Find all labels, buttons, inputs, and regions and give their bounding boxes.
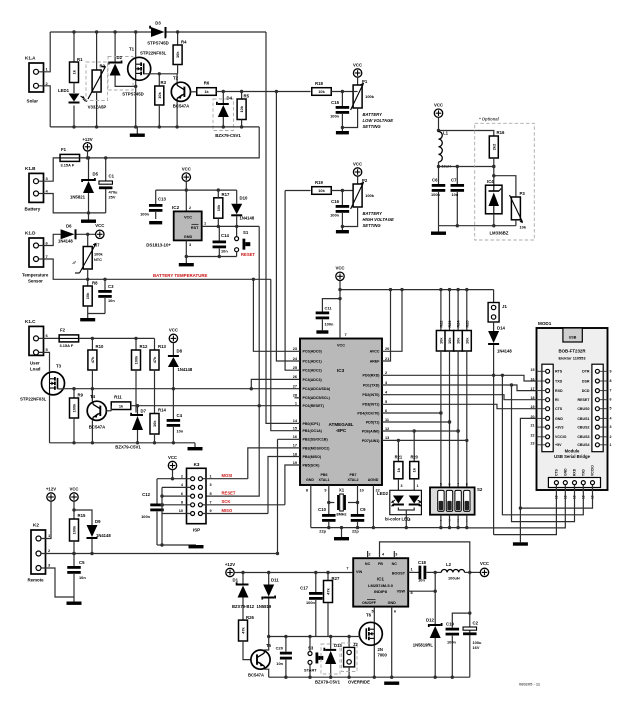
svg-text:PD7(AIN1): PD7(AIN1) [362, 439, 380, 443]
svg-text:8: 8 [181, 501, 183, 505]
wire IC2 RST line [202, 218, 260, 228]
svg-text:2: 2 [610, 435, 612, 439]
svg-text:PC0(ADC0): PC0(ADC0) [303, 350, 323, 354]
svg-text:6: 6 [394, 610, 396, 614]
svg-text:27: 27 [293, 385, 297, 389]
svg-text:Temperature: Temperature [22, 273, 49, 278]
diode D3 STPS745D in top rail [147, 21, 169, 46]
capacitor C1 470u 25V [99, 158, 118, 213]
svg-text:17: 17 [293, 444, 297, 448]
svg-text:BZX79-C5V1: BZX79-C5V1 [215, 133, 241, 138]
transistor T5 BC547A [248, 637, 272, 678]
ground below solar rail [130, 127, 145, 137]
transistor T6 2N7000 MOSFET [359, 607, 387, 678]
svg-text:PB5(SCK): PB5(SCK) [303, 463, 321, 467]
svg-text:C15: C15 [331, 100, 339, 105]
resistor R16 [489, 130, 505, 185]
connector K2 Remote [28, 523, 52, 583]
svg-text:STP22NF03L: STP22NF03L [140, 51, 167, 56]
wire IC3 vcc [338, 281, 341, 339]
pushbutton S3 START [304, 637, 323, 678]
svg-text:1N5819RL: 1N5819RL [413, 643, 434, 648]
connector K1.B Battery [25, 166, 49, 212]
svg-text:DCD: DCD [582, 389, 590, 393]
module MOD1 box [537, 321, 608, 490]
svg-text:1: 1 [210, 475, 212, 479]
svg-text:C16: C16 [331, 199, 339, 204]
svg-text:BC547A: BC547A [89, 425, 105, 430]
svg-text:DSR: DSR [582, 379, 590, 383]
svg-text:BOB-FT232R: BOB-FT232R [558, 349, 586, 354]
svg-text:Solar: Solar [27, 99, 39, 104]
wire RESET vertical [205, 226, 259, 496]
diode D10 1N4148 [231, 190, 255, 226]
svg-text:PB1(OC1A): PB1(OC1A) [303, 429, 323, 433]
svg-text:VCC: VCC [353, 162, 362, 167]
svg-text:GND: GND [388, 601, 397, 605]
svg-text:25V: 25V [109, 195, 116, 200]
svg-text:19: 19 [293, 461, 297, 465]
resistor R15 [70, 513, 86, 541]
svg-text:CTS: CTS [555, 407, 563, 411]
svg-text:D2: D2 [117, 55, 123, 60]
svg-text:INDIP8: INDIP8 [374, 589, 388, 594]
svg-text:C20: C20 [276, 646, 284, 651]
svg-text:R23: R23 [448, 321, 452, 328]
svg-text:D12: D12 [426, 618, 434, 623]
svg-text:10n: 10n [108, 298, 115, 303]
svg-text:100k: 100k [134, 355, 139, 364]
+12V supply regulator [225, 562, 235, 577]
svg-text:3: 3 [385, 381, 387, 385]
svg-text:User: User [30, 361, 40, 366]
wire AVCC pin20 [382, 288, 404, 351]
wire pin15 [271, 279, 300, 430]
capacitor C12 100n [141, 479, 164, 545]
wire pin23 temperature [253, 279, 300, 351]
svg-text:100uH: 100uH [448, 576, 460, 581]
zener D13 BZX79-C5V1 [315, 637, 342, 685]
VCC supply D8 [169, 328, 178, 343]
svg-text:16: 16 [293, 435, 297, 439]
transistor T3 STP22NF03L MOSFET [20, 352, 65, 442]
svg-text:1: 1 [204, 222, 206, 226]
svg-text:LED2: LED2 [377, 491, 389, 496]
wire solar bottom rail [50, 125, 259, 128]
varistor R2 V33ZA5P [86, 32, 108, 127]
wire IC3 pin10 XTAL2 [356, 485, 364, 514]
wire pin11 line [382, 420, 451, 423]
svg-text:BZX79-C5V1: BZX79-C5V1 [115, 445, 141, 450]
svg-text:1: 1 [610, 443, 612, 447]
wire L1 node [437, 165, 496, 168]
svg-text:PB6: PB6 [321, 473, 328, 477]
wire VCC to R15 D9 [72, 501, 92, 525]
svg-text:RESET: RESET [241, 252, 255, 257]
svg-text:C13: C13 [158, 197, 166, 202]
svg-text:R25: R25 [465, 321, 469, 328]
svg-text:7: 7 [346, 567, 348, 571]
svg-text:8MHz: 8MHz [336, 512, 346, 517]
svg-text:R9: R9 [78, 393, 84, 398]
wire optional bottom rail [439, 224, 516, 227]
svg-text:3.15A F: 3.15A F [61, 163, 75, 168]
wire pin6 line [382, 411, 443, 414]
svg-text:10n: 10n [276, 661, 283, 666]
wire IC2 gnd net [185, 241, 237, 264]
svg-text:D11: D11 [271, 578, 279, 583]
resistor R13 [150, 338, 166, 413]
wire pin28 stub [295, 397, 301, 399]
MOD1 bottom connector [548, 465, 600, 499]
svg-text:23: 23 [293, 347, 297, 351]
svg-text:10: 10 [179, 509, 183, 513]
transistor T2 BC547A [171, 74, 196, 127]
svg-text:080205 - 11: 080205 - 11 [519, 682, 541, 687]
svg-text:100k: 100k [94, 252, 103, 257]
svg-text:Battery: Battery [25, 207, 41, 212]
wire ISP ground pins [160, 487, 190, 513]
svg-text:10k: 10k [175, 51, 180, 58]
resistor R20 [410, 431, 419, 490]
svg-text:1: 1 [411, 568, 413, 572]
svg-text:R11: R11 [114, 395, 122, 400]
svg-text:26: 26 [293, 375, 297, 379]
svg-text:Remote: Remote [28, 578, 45, 583]
VCC supply IC3 [335, 266, 344, 281]
svg-text:8: 8 [306, 489, 308, 493]
svg-text:VCC: VCC [184, 216, 192, 220]
ground K2 [67, 597, 82, 605]
svg-text:VCC: VCC [169, 328, 178, 333]
svg-text:10n: 10n [418, 578, 425, 583]
svg-text:21: 21 [385, 357, 389, 361]
ground battery [81, 213, 96, 223]
resistor R11 1k [111, 395, 131, 411]
ground P2 [336, 230, 349, 233]
wire VCC rail 289 [340, 288, 494, 291]
svg-text:2: 2 [368, 553, 370, 557]
svg-text:D1: D1 [233, 578, 239, 583]
schottky D12 1N5819RL [413, 591, 443, 677]
svg-text:3: 3 [189, 243, 191, 247]
svg-text:MOD1: MOD1 [538, 321, 552, 326]
svg-text:1: 1 [295, 402, 297, 406]
svg-text:PD1(TXD): PD1(TXD) [363, 383, 380, 387]
svg-text:100n: 100n [325, 322, 334, 327]
capacitor C19 100n [446, 613, 470, 677]
svg-text:100n: 100n [306, 600, 315, 605]
battery temperature net [86, 273, 271, 281]
svg-text:2N: 2N [378, 647, 383, 652]
svg-text:10n: 10n [221, 249, 228, 254]
svg-text:STPS745D: STPS745D [147, 41, 169, 46]
svg-text:BZX79-B12: BZX79-B12 [232, 604, 255, 609]
wire MOD1 bottom VCCIO [520, 485, 592, 509]
svg-text:3: 3 [610, 425, 612, 429]
svg-text:D10: D10 [240, 196, 248, 201]
capacitor C7 10n [451, 167, 465, 226]
svg-text:C12: C12 [142, 492, 150, 497]
ground ISP [189, 545, 204, 548]
diode D8 1N4148 [168, 343, 193, 391]
potentiometer P1 100k [342, 77, 374, 127]
svg-text:10k: 10k [216, 204, 221, 211]
label RESET isp [222, 491, 236, 496]
svg-text:D4: D4 [227, 96, 233, 101]
svg-text:PD5(T1): PD5(T1) [366, 420, 380, 424]
regulator IC1 LM2574M box [346, 553, 412, 614]
svg-text:10k: 10k [520, 225, 527, 230]
svg-text:10k: 10k [318, 89, 325, 94]
svg-text:8: 8 [610, 379, 612, 383]
wire pin19 SCK [285, 465, 300, 505]
svg-text:RXD: RXD [555, 389, 563, 393]
svg-text:XTAL2: XTAL2 [347, 478, 358, 482]
wire K2 pin3 to gnd [41, 568, 74, 597]
svg-text:10k: 10k [85, 292, 90, 299]
svg-text:VCC: VCC [69, 487, 78, 492]
svg-text:R16: R16 [497, 130, 505, 135]
wire IC3 pin22 AGND [373, 485, 379, 528]
crystal X1 8MHz [329, 488, 358, 517]
svg-text:21: 21 [531, 424, 535, 428]
wire solar top rail [50, 30, 151, 33]
resistor R19 10k [285, 180, 353, 194]
svg-text:PD6(AIN0): PD6(AIN0) [362, 429, 380, 433]
wire P3 top [494, 176, 516, 197]
svg-text:12: 12 [385, 427, 389, 431]
svg-text:R14: R14 [158, 408, 166, 413]
svg-text:PD4(XCK/T0): PD4(XCK/T0) [357, 411, 380, 415]
svg-text:VCC: VCC [335, 266, 344, 271]
svg-text:7000: 7000 [378, 653, 388, 658]
svg-text:100n: 100n [140, 212, 149, 217]
wire load bottom rail [50, 441, 196, 444]
svg-text:5: 5 [210, 492, 212, 496]
wire VCC branch to R16 [439, 131, 494, 137]
svg-text:2k2: 2k2 [491, 143, 496, 150]
connector K3 ISP [179, 462, 212, 533]
svg-text:100k: 100k [72, 525, 77, 534]
svg-text:CBUS3: CBUS3 [577, 435, 589, 439]
connector K1.A Solar [25, 56, 49, 104]
svg-text:C17: C17 [300, 586, 308, 591]
svg-text:100k: 100k [72, 403, 77, 412]
VCC supply output [480, 561, 489, 577]
svg-text:6: 6 [610, 398, 612, 402]
svg-text:R12: R12 [140, 344, 148, 349]
VCC supply IC2 [182, 167, 191, 182]
wire ISP MOSI [203, 478, 248, 480]
svg-text:PD2(INT0): PD2(INT0) [362, 393, 380, 397]
potentiometer P2 100k [342, 176, 374, 226]
wire pin16 to remote line [276, 439, 300, 555]
svg-text:R7: R7 [94, 243, 100, 248]
svg-text:PD0(RXD): PD0(RXD) [363, 374, 381, 378]
svg-text:R20: R20 [410, 455, 418, 460]
schottky D11 1N5819 [257, 573, 280, 637]
resistor R12 [132, 338, 148, 412]
MOD1 right header [577, 364, 611, 452]
svg-text:VCC: VCC [182, 167, 191, 172]
pull-up resistors R22 R23 R24 R25 [436, 290, 471, 351]
svg-text:100n: 100n [141, 514, 150, 519]
diode D9 1N4148 [87, 519, 112, 555]
svg-text:HIGH VOLTAGE: HIGH VOLTAGE [363, 217, 394, 222]
svg-text:11: 11 [385, 418, 389, 422]
svg-text:2: 2 [385, 371, 387, 375]
IC2 DS1813 box [146, 205, 206, 248]
svg-text:K1.D: K1.D [25, 231, 36, 236]
dip switch S2 [430, 483, 483, 523]
svg-text:5: 5 [610, 407, 612, 411]
svg-text:CBUS2: CBUS2 [577, 426, 589, 430]
svg-text:SETTING: SETTING [363, 223, 382, 228]
wire MOD1 bottom RXD [510, 383, 575, 521]
svg-text:R6: R6 [204, 81, 210, 86]
svg-text:D7: D7 [141, 409, 147, 414]
svg-text:7: 7 [345, 333, 347, 337]
wire ISP MISO row [203, 513, 268, 515]
jumper J2 OVERRIDE [342, 637, 371, 685]
label SCK [222, 499, 231, 504]
svg-text:D14: D14 [497, 326, 505, 331]
svg-text:USB: USB [569, 336, 577, 340]
wire solar gate net to R18 [242, 90, 311, 93]
wire load rail [79, 337, 155, 340]
svg-text:47k: 47k [326, 587, 331, 594]
wire PD1 TXD to MOD1 RXD [382, 385, 537, 391]
svg-text:BC547A: BC547A [248, 673, 264, 678]
svg-text:USB Serial Bridge: USB Serial Bridge [554, 454, 591, 459]
wire K1.B pin4 to ground rail [39, 194, 106, 215]
svg-text:K1.C: K1.C [25, 319, 36, 324]
svg-text:DTR: DTR [582, 370, 590, 374]
svg-text:IC2: IC2 [172, 205, 180, 210]
wire pin14 from solar rail [266, 32, 300, 423]
svg-text:2: 2 [181, 475, 183, 479]
VCC supply ISP [168, 455, 177, 470]
ground MCU [334, 528, 349, 541]
svg-text:10n: 10n [452, 192, 459, 197]
wire pin25 from R19 [285, 191, 300, 371]
svg-text:ON/OFF: ON/OFF [362, 601, 377, 605]
svg-text:2: 2 [189, 206, 191, 210]
VCC supply P1 [353, 63, 362, 78]
svg-text:100k: 100k [365, 193, 375, 198]
svg-text:P2: P2 [362, 178, 368, 183]
svg-text:Load: Load [30, 367, 41, 372]
ground C13 [149, 221, 162, 224]
svg-text:RST: RST [191, 226, 199, 230]
svg-text:LM2574M-5.0: LM2574M-5.0 [368, 583, 394, 588]
wire ISP vcc [157, 470, 190, 481]
svg-text:J2: J2 [353, 642, 358, 647]
svg-text:1N4148: 1N4148 [58, 239, 73, 244]
svg-text:R17: R17 [222, 192, 230, 197]
svg-text:IC3: IC3 [337, 368, 345, 373]
svg-text:VCC: VCC [434, 103, 443, 108]
ground temp [80, 314, 95, 322]
svg-text:F1: F1 [61, 147, 67, 152]
svg-text:5: 5 [440, 483, 442, 487]
svg-text:S3: S3 [308, 646, 314, 651]
wire top rail right of D3 [167, 30, 267, 33]
svg-text:V33ZA5P: V33ZA5P [88, 105, 107, 110]
svg-text:PB3(MOSI/OC2): PB3(MOSI/OC2) [303, 446, 331, 450]
reference IC4 LM336BZ [486, 179, 509, 236]
svg-text:RTS: RTS [555, 370, 563, 374]
svg-text:R21: R21 [395, 455, 403, 460]
capacitor C9 22p [351, 507, 366, 534]
svg-text:T1: T1 [129, 47, 135, 52]
svg-text:R4: R4 [181, 40, 187, 45]
ground IC2 [179, 263, 194, 266]
svg-text:+12V: +12V [82, 137, 92, 142]
resistor R3 [155, 74, 167, 127]
capacitor C15 100n [330, 92, 349, 132]
svg-text:T6: T6 [366, 613, 372, 618]
wire MOD1 bottom CTS [494, 485, 557, 535]
svg-text:DS1813-10+: DS1813-10+ [146, 243, 171, 248]
svg-text:C18: C18 [418, 560, 426, 565]
svg-text:SETTING: SETTING [363, 124, 382, 129]
wire MOD1 GND to ground [519, 418, 537, 542]
MOD1 left header [531, 364, 567, 452]
svg-text:10k: 10k [318, 188, 325, 193]
svg-text:10k: 10k [464, 337, 469, 344]
svg-text:R8: R8 [92, 281, 98, 286]
svg-text:VIN: VIN [356, 570, 362, 574]
svg-text:C1: C1 [109, 174, 115, 179]
svg-text:TXD: TXD [582, 469, 586, 476]
svg-text:D8: D8 [177, 349, 183, 354]
svg-text:NTC: NTC [94, 257, 102, 262]
svg-text:3: 3 [401, 484, 403, 488]
svg-text:AREF: AREF [370, 359, 381, 363]
svg-text:+12V: +12V [225, 562, 235, 567]
svg-text:1N4148: 1N4148 [178, 367, 193, 372]
svg-text:PC6(RESET): PC6(RESET) [303, 404, 325, 408]
fuse F1 3.15A [60, 147, 80, 168]
svg-text:GND: GND [555, 417, 563, 421]
wire load sense to IC3 pins 26 27 [92, 379, 300, 390]
ground C11 [316, 330, 328, 333]
svg-text:100k: 100k [365, 94, 375, 99]
wire PD3 INT1 to MOD1 CTS [382, 404, 537, 408]
transistor T4 BC547A [87, 389, 111, 443]
connector K1.D Temperature Sensor [22, 231, 49, 284]
svg-text:R26: R26 [246, 615, 254, 620]
svg-text:RI: RI [555, 398, 559, 402]
svg-text:D9: D9 [95, 519, 101, 524]
wire solar rail to battery node [110, 127, 259, 158]
wire K2 pin1 to +12V [41, 501, 51, 538]
pushbutton S1 RESET [235, 226, 256, 256]
svg-text:R10: R10 [96, 344, 104, 349]
svg-text:BZX79-C5V1: BZX79-C5V1 [315, 680, 341, 685]
potentiometer P3 10k [510, 191, 527, 230]
svg-text:PB4(MISO): PB4(MISO) [303, 455, 322, 459]
wire pin13 line [382, 439, 468, 442]
svg-text:C5: C5 [79, 560, 85, 565]
capacitor C4 10n [167, 389, 184, 443]
svg-text:47k: 47k [152, 356, 157, 363]
svg-text:R5: R5 [244, 94, 250, 99]
svg-text:bi-color LED: bi-color LED [385, 517, 410, 522]
svg-text:PC3(ADC3): PC3(ADC3) [303, 378, 323, 382]
